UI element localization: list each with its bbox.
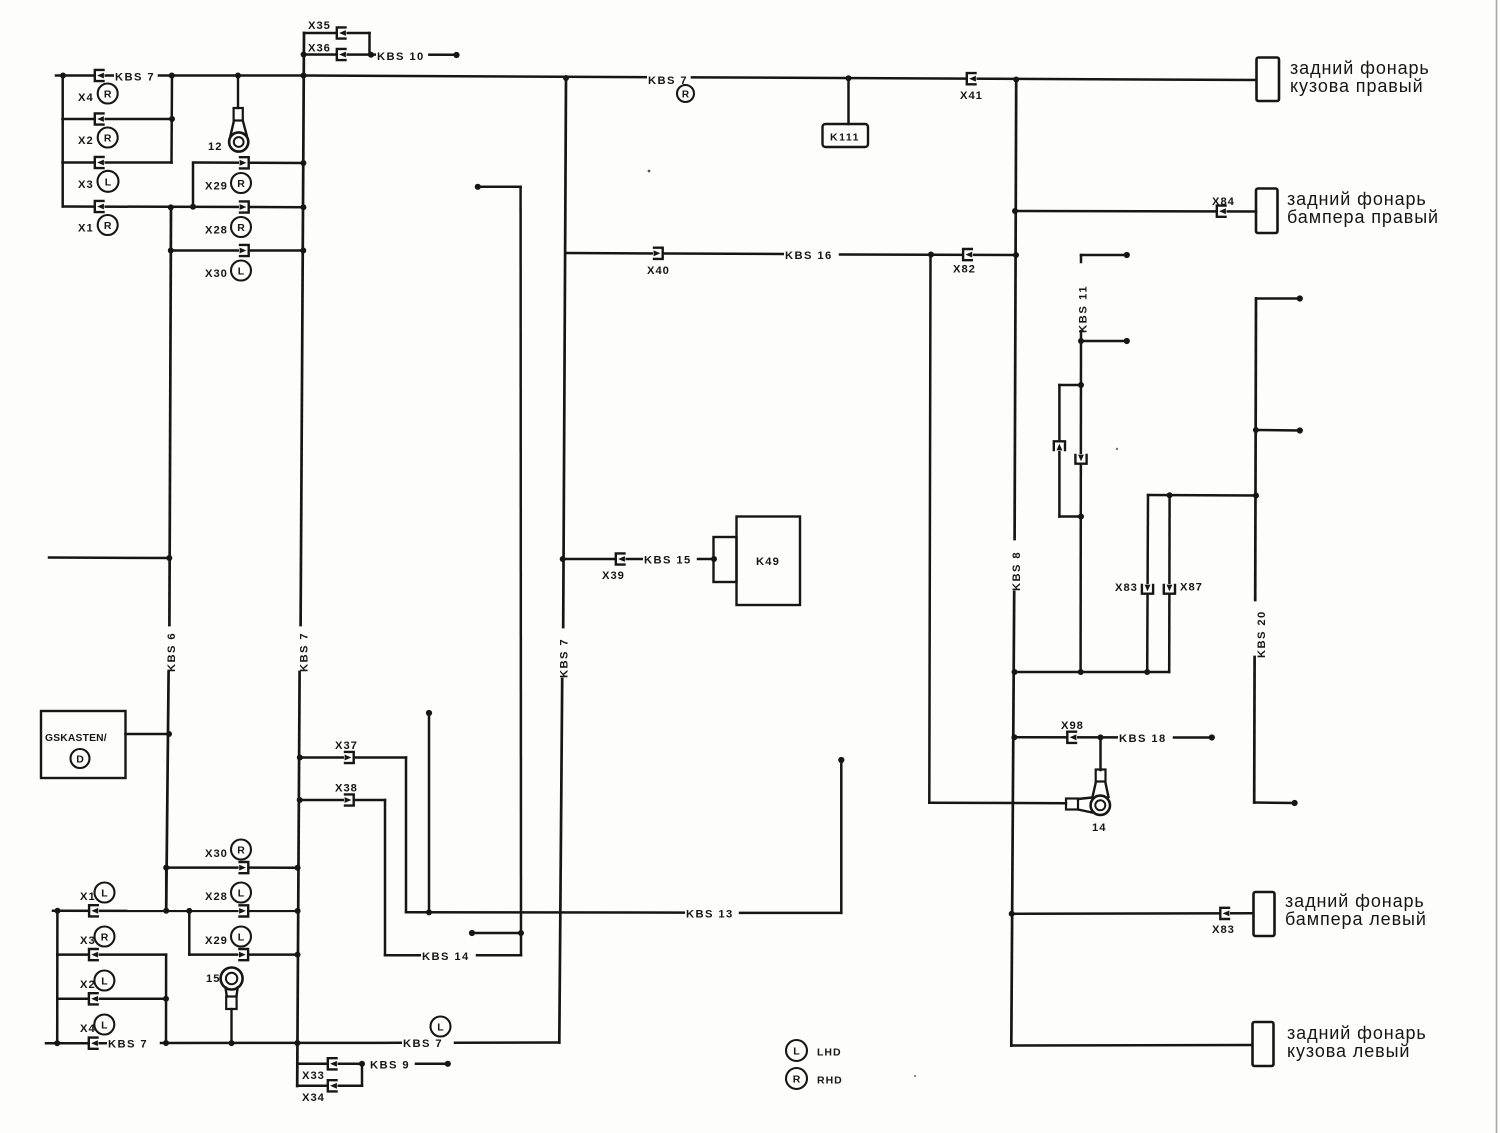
connector X4 — [95, 70, 105, 81]
control unit K49 — [714, 517, 801, 606]
junction dot (169,734) — [166, 731, 172, 737]
svg-text:12: 12 — [208, 141, 222, 153]
svg-text:KBS 14: KBS 14 — [422, 951, 470, 963]
svg-text:KBS 7: KBS 7 — [559, 638, 571, 678]
junction dot (303.4,207.2) — [300, 204, 306, 210]
junction dot (521,933) — [518, 930, 524, 936]
connector X83 bottom — [1220, 908, 1230, 919]
svg-text:L: L — [238, 266, 245, 278]
wire X30 row — [171, 249, 304, 252]
wire X98 row — [1014, 736, 1119, 739]
svg-text:задний фонарь: задний фонарь — [1285, 891, 1425, 911]
connector X29 (R) — [239, 157, 249, 168]
connector X36 — [337, 49, 347, 60]
wire to ring terminal 14 — [929, 802, 1066, 805]
connector X4 (L) — [89, 1038, 99, 1049]
end dot KBS 20 mid stub — [1297, 427, 1303, 433]
wire top link X83/X87 to KBS 20 — [1148, 494, 1256, 497]
svg-text:X36: X36 — [308, 43, 331, 55]
wire bottom link X83/X87 to KBS 8 — [1015, 671, 1170, 674]
junction dot (166.2,867.6) — [163, 865, 169, 871]
svg-text:X98: X98 — [1061, 720, 1084, 732]
svg-text:KBS 20: KBS 20 — [1256, 610, 1268, 658]
connector X28 (R) — [239, 201, 249, 212]
circle D in GSKASTEN box — [71, 749, 90, 768]
svg-text:L: L — [793, 1046, 800, 1058]
svg-text:X2: X2 — [78, 135, 94, 147]
junction dot (169.3,558) — [166, 555, 172, 561]
wire loop left leg — [1058, 385, 1061, 517]
wire stub left at y558 — [49, 556, 169, 559]
svg-text:X83: X83 — [1115, 582, 1138, 594]
lamp задний фонарь бампера левый — [1254, 892, 1275, 936]
wire X1 / X28 row — [63, 205, 304, 208]
junction dot (172,119) — [169, 116, 175, 122]
wire KBS 7 top run to right lamp — [304, 76, 1257, 81]
wire bus KBS 8 upper part — [1015, 80, 1017, 540]
label KBS 13 — [685, 908, 737, 919]
svg-text:X4: X4 — [78, 92, 94, 104]
wire KBS 13 left part — [406, 911, 684, 914]
end dot KBS 20 top stub — [1297, 295, 1303, 301]
end dot KBS 11 top stub — [1124, 252, 1130, 258]
junction dot (1147.2,672) — [1144, 669, 1150, 675]
junction dot (1081,341) — [1078, 338, 1084, 344]
junction dot (1014.5,672) — [1012, 669, 1018, 675]
svg-text:X41: X41 — [960, 90, 983, 102]
wire KBS 11 vertical above label — [1080, 255, 1083, 262]
lamp задний фонарь кузова левый — [1253, 1022, 1274, 1066]
wire bus KBS 6 upper part — [169, 208, 171, 626]
wire bus KBS 7 mid (x562) upper part — [563, 78, 566, 627]
svg-text:LHD: LHD — [817, 1047, 842, 1059]
junction dot (297.5,954.6) — [295, 952, 301, 958]
label KBS 14 — [421, 951, 473, 962]
svg-text:R: R — [101, 932, 109, 944]
wire X34 row — [297, 1085, 362, 1088]
junction dot (371,54.7) — [368, 52, 374, 58]
svg-text:L: L — [238, 888, 245, 900]
end dot KBS 20 bottom stub — [1292, 800, 1298, 806]
wire KBS 16 left part — [566, 253, 784, 254]
wire X38 row — [299, 799, 385, 802]
svg-text:KBS 15: KBS 15 — [644, 555, 692, 567]
connector X82 — [963, 249, 973, 260]
circle R of X2 — [98, 128, 118, 148]
circle R of X1 — [98, 215, 118, 235]
wire drop from node to KBS 13 — [428, 713, 431, 912]
circle R of X29 — [231, 173, 251, 193]
wire main bus KBS 7 (x303) upper part — [301, 33, 304, 625]
svg-text:X38: X38 — [335, 783, 358, 795]
svg-text:X87: X87 — [1180, 582, 1203, 594]
wire long drop x520 to KBS 14 — [519, 187, 522, 956]
relay K111 — [823, 124, 869, 147]
svg-text:R: R — [104, 220, 112, 232]
end dot KBS 10 — [453, 52, 459, 58]
svg-text:KBS 8: KBS 8 — [1011, 551, 1023, 591]
svg-text:KBS 6: KBS 6 — [166, 632, 178, 672]
wire bus KBS 8 lower part — [1011, 592, 1014, 1046]
wire X4 row / KBS 7 feed — [56, 74, 304, 77]
wire to rear bumper lamp left — [1012, 912, 1253, 915]
connector X30 (L) — [239, 245, 249, 256]
junction dot (231.5,1043.1) — [229, 1040, 235, 1046]
connector X35 — [337, 27, 347, 38]
svg-text:X35: X35 — [308, 20, 331, 32]
wire X3R row — [57, 953, 166, 956]
wire bottom KBS 7 row middle — [161, 1042, 401, 1045]
connector X2 (L) — [89, 993, 99, 1004]
wire drop x929 from KBS 16 — [929, 255, 930, 803]
junction dot (1100.5,737.4) — [1098, 734, 1104, 740]
wire to rear bumper lamp right — [1015, 210, 1256, 213]
junction dot (1011.7,913.8) — [1009, 911, 1015, 917]
connector X40 — [653, 248, 663, 259]
junction dot (57.5,910.8) — [55, 908, 61, 914]
label KBS 16 — [784, 250, 836, 261]
circle L legend — [786, 1040, 807, 1061]
wire KBS 11 top stub — [1081, 254, 1127, 257]
svg-text:X28: X28 — [205, 891, 228, 903]
svg-text:R: R — [237, 178, 245, 190]
circle L of X3 — [98, 171, 119, 192]
svg-text:кузова левый: кузова левый — [1287, 1041, 1410, 1061]
fuse box GSKASTEN/D — [41, 711, 126, 778]
label KBS 7 on top run — [647, 75, 691, 86]
junction dot (1081,385) — [1078, 382, 1084, 388]
wire vertical link X29 to X28 row — [192, 163, 195, 207]
junction dot (303.6,54.5) — [301, 52, 307, 58]
svg-text:R: R — [793, 1074, 801, 1086]
circle L of X29 bottom — [231, 927, 251, 947]
connector X1 — [95, 201, 105, 212]
junction dot (562.7,559) — [560, 556, 566, 562]
circle L of X1 bottom — [95, 883, 115, 903]
junction dot (1256,495.5) — [1253, 493, 1259, 499]
svg-text:X33: X33 — [302, 1070, 325, 1082]
junction dot (63,75.5) — [60, 73, 66, 79]
circle R legend — [786, 1068, 807, 1089]
junction dot (1016.2,79.5) — [1013, 77, 1019, 83]
junction dot (193,206.8) — [190, 204, 196, 210]
svg-text:X1: X1 — [80, 891, 96, 903]
circle R of X28 — [231, 217, 251, 237]
svg-text:X40: X40 — [647, 265, 670, 277]
label KBS 7 top left — [114, 71, 158, 82]
svg-text:R: R — [104, 133, 112, 145]
junction dot (297.4,1043) — [294, 1040, 300, 1046]
svg-text:X37: X37 — [335, 740, 358, 752]
svg-text:L: L — [238, 932, 245, 944]
svg-text:X1: X1 — [78, 223, 94, 235]
circle L of X2 bottom — [94, 971, 114, 991]
wire KBS 20 top stub — [1256, 297, 1300, 300]
end dot above KBS 13 drop — [426, 710, 432, 716]
wire GSKASTEN to KBS 6 bus — [126, 733, 170, 736]
connector X2 — [95, 113, 105, 124]
svg-text:L: L — [437, 1022, 444, 1034]
wire KBS 9 line — [416, 1063, 448, 1066]
wire vertical link rows X4-X3 — [170, 76, 173, 163]
svg-text:R: R — [682, 90, 690, 101]
label KBS 18 — [1118, 733, 1170, 744]
connector X3 — [95, 157, 105, 168]
svg-text:KBS 11: KBS 11 — [1078, 285, 1090, 333]
junction dot (848.5,78.3) — [846, 75, 852, 81]
wire KBS 14 left part — [385, 954, 420, 957]
ring terminal 14 — [1066, 770, 1110, 816]
junction dot (1255.9,430) — [1253, 427, 1259, 433]
label KBS 10 — [376, 51, 428, 62]
junction dot (171.8,75.5) — [169, 73, 175, 79]
junction dot (170.8,207.4) — [168, 204, 174, 210]
junction dot (1016,255) — [1013, 252, 1019, 258]
connector X37 — [344, 752, 354, 763]
wire KBS 11 vertical lower — [1079, 331, 1082, 672]
wire KBS 18 stub — [1174, 736, 1212, 739]
circle R legend under KBS 7 label — [677, 85, 694, 102]
circle L of X4 bottom — [94, 1015, 114, 1035]
junction dot (297.6,910.9) — [295, 908, 301, 914]
wire KBS 16 right part — [840, 253, 1016, 256]
wire KBS 13 right part — [740, 912, 841, 915]
ring terminal 12 — [229, 76, 248, 152]
lamp задний фонарь кузова правый — [1257, 58, 1280, 102]
connector X41 — [967, 73, 977, 84]
wire main bus KBS 7 (x303) lower part — [297, 672, 299, 1086]
page edge shadow — [1496, 0, 1498, 1133]
svg-text:KBS 13: KBS 13 — [686, 909, 734, 921]
svg-text:X3: X3 — [80, 935, 96, 947]
wire left bus bottom group — [56, 911, 59, 1043]
connector X34 — [328, 1080, 338, 1091]
svg-text:R: R — [104, 89, 112, 101]
connector X38 — [344, 794, 354, 805]
wire bus KBS 20 upper part — [1254, 299, 1258, 601]
svg-text:X3: X3 — [78, 179, 94, 191]
junction dot (1081,516.5) — [1078, 514, 1084, 520]
svg-text:X29: X29 — [205, 181, 228, 193]
svg-text:X83: X83 — [1212, 924, 1235, 936]
connector X39 — [616, 553, 626, 564]
svg-text:K111: K111 — [830, 132, 860, 144]
connector X83 — [1142, 584, 1153, 594]
svg-text:KBS 18: KBS 18 — [1119, 733, 1167, 745]
wire X35 row — [304, 32, 370, 35]
junction dot (1080.7,672) — [1078, 669, 1084, 675]
circle R of X4 — [98, 84, 118, 104]
svg-text:KBS 9: KBS 9 — [370, 1060, 410, 1072]
svg-text:бампера правый: бампера правый — [1287, 207, 1439, 227]
junction dot (189.3,910.9) — [186, 908, 192, 914]
junction dot (170.8,250.5) — [168, 248, 174, 254]
connector X98 — [1067, 732, 1077, 743]
wire X38 drop to KBS 14 — [384, 800, 387, 955]
connector X3 (R) — [89, 949, 99, 960]
svg-text:KBS 7: KBS 7 — [115, 72, 155, 84]
junction dot (57.2,1043.2) — [54, 1040, 60, 1046]
junction dot (297.6,867.7) — [295, 865, 301, 871]
wire bus KBS 7 mid lower part — [559, 679, 562, 1043]
wire X87 leg — [1168, 495, 1171, 672]
wire KBS 20 mid stub — [1256, 429, 1300, 432]
wire X2L row — [57, 998, 166, 1001]
circle R of X3 bottom — [95, 927, 115, 947]
end dot KBS 9 — [445, 1061, 451, 1067]
end dot KBS 18 — [1209, 734, 1215, 740]
wire X29L row — [189, 953, 297, 956]
end dot at x478 y187 — [475, 184, 481, 190]
junction dot (429,912.4) — [426, 909, 432, 915]
scan specks — [648, 170, 651, 173]
junction dot (303.5,75.5) — [301, 73, 307, 79]
wire loop bottom horizontal — [1059, 515, 1081, 518]
svg-text:X29: X29 — [205, 935, 228, 947]
wire KBS 13 rise to end dot — [840, 760, 843, 913]
wire X35-X36 link bar — [368, 33, 371, 55]
junction dot (1015,211) — [1012, 208, 1018, 214]
circle L above bottom KBS 7 — [431, 1017, 451, 1037]
wire vertical link X3R to KBS7 row — [165, 955, 168, 1043]
wire KBS 11 second stub — [1081, 340, 1127, 343]
wire elbow top of x520 drop — [478, 186, 521, 189]
wire X33-X34 link bar — [361, 1064, 364, 1086]
svg-text:D: D — [76, 754, 84, 766]
junction dot (362,1063.8) — [359, 1061, 365, 1067]
wire X33 row — [297, 1063, 362, 1066]
wire KBS 20 bottom stub — [1254, 801, 1294, 804]
connector on loop left leg — [1054, 441, 1065, 451]
wire bus KBS 6 lower part — [166, 672, 168, 911]
junction dot (1169.6,495.3) — [1167, 492, 1173, 498]
wire tap to K111 — [847, 78, 850, 124]
connector X87 — [1164, 584, 1175, 594]
svg-text:L: L — [105, 176, 112, 188]
junction dot (566,78) — [563, 75, 569, 81]
svg-text:KBS 7: KBS 7 — [299, 632, 311, 672]
wire vertical link X28L to X29L row — [188, 911, 191, 955]
connector X1 (L) — [89, 905, 99, 916]
end dot KBS 13 — [838, 757, 844, 763]
svg-text:15: 15 — [206, 973, 220, 985]
svg-text:X84: X84 — [1212, 196, 1235, 208]
svg-text:задний фонарь: задний фонарь — [1290, 58, 1430, 78]
junction dot (238,75.5) — [235, 73, 241, 79]
junction dot (166,998.8) — [163, 996, 169, 1002]
wire X37 row — [300, 756, 407, 759]
label KBS 7 bottom left — [107, 1038, 151, 1049]
svg-text:L: L — [101, 1020, 108, 1032]
circle L of X30 — [231, 261, 251, 281]
svg-text:KBS 7: KBS 7 — [403, 1038, 443, 1050]
connector X84 — [1217, 206, 1227, 217]
wire stub into x520 drop — [472, 932, 521, 935]
svg-text:X2: X2 — [80, 979, 96, 991]
junction dot (166,1043) — [163, 1040, 169, 1046]
wire KBS6 tail X30R to X28L row — [165, 868, 168, 911]
wire X2 row — [63, 118, 173, 121]
svg-text:KBS 10: KBS 10 — [377, 51, 425, 63]
junction dot (1014.4,737.3) — [1011, 734, 1017, 740]
circle L of X28 bottom — [231, 883, 251, 903]
junction dot (166.2,910.8) — [163, 908, 169, 914]
svg-text:задний фонарь: задний фонарь — [1287, 189, 1427, 209]
svg-text:X39: X39 — [602, 570, 625, 582]
svg-text:L: L — [101, 976, 108, 988]
junction dot (299.7,800) — [297, 797, 303, 803]
wire KBS 14 right part — [477, 954, 521, 957]
svg-text:RHD: RHD — [817, 1075, 843, 1087]
wire X1L / X28L row — [53, 910, 298, 913]
wire bus KBS 20 lower part — [1253, 657, 1256, 803]
wire X36 row / KBS 10 — [303, 53, 456, 56]
svg-text:K49: K49 — [756, 556, 780, 568]
svg-text:R: R — [237, 222, 245, 234]
svg-text:KBS 16: KBS 16 — [785, 250, 833, 262]
svg-text:14: 14 — [1092, 822, 1106, 834]
svg-text:задний фонарь: задний фонарь — [1287, 1023, 1427, 1043]
label KBS 7 bottom middle — [402, 1038, 446, 1049]
wire KBS 15 right part — [698, 558, 714, 561]
ring terminal 15 — [221, 968, 243, 1044]
wire X30R row — [166, 866, 297, 869]
svg-text:X34: X34 — [302, 1092, 325, 1104]
wire drop to ring terminal 14 — [1099, 737, 1102, 770]
wire bottom KBS 7 row right — [455, 1041, 559, 1044]
svg-text:KBS 7: KBS 7 — [108, 1039, 148, 1051]
end dot stub y933 — [469, 930, 475, 936]
lamp задний фонарь бампера правый — [1256, 189, 1278, 234]
wire bottom KBS 7 row left end — [46, 1042, 107, 1045]
svg-text:R: R — [237, 845, 245, 857]
circle R of X30 bottom — [231, 840, 251, 860]
label KBS 15 — [643, 554, 695, 565]
wire to rear body lamp left — [1011, 1044, 1252, 1047]
svg-text:кузова правый: кузова правый — [1290, 76, 1424, 96]
wire loop top horizontal — [1059, 384, 1081, 387]
connector X28 (L) — [239, 905, 249, 916]
junction dot (303.4,163) — [300, 160, 306, 166]
wire X29 row — [195, 161, 304, 164]
wire KBS 15 left part — [563, 558, 646, 561]
wire X3 row — [63, 161, 172, 164]
junction dot (303.3,250.5) — [300, 248, 306, 254]
end dot KBS 11 second stub — [1124, 338, 1130, 344]
svg-text:бампера левый: бампера левый — [1285, 909, 1427, 929]
connector X29 (L) — [238, 949, 248, 960]
junction dot (299.8,757.5) — [297, 755, 303, 761]
label KBS 9 — [369, 1059, 413, 1070]
svg-text:L: L — [101, 888, 108, 900]
connector on KBS 11 leg — [1075, 454, 1086, 464]
junction dot (931,254.5) — [928, 252, 934, 258]
junction dot (714,559) — [711, 556, 717, 562]
svg-text:X82: X82 — [953, 264, 976, 276]
wire X37 drop to KBS 13 — [405, 758, 408, 913]
wire X83 leg — [1146, 495, 1149, 672]
svg-text:X28: X28 — [205, 225, 228, 237]
connector X33 — [328, 1058, 338, 1069]
connector X30 (R) — [239, 862, 249, 873]
svg-text:X30: X30 — [205, 268, 228, 280]
svg-text:X30: X30 — [205, 848, 228, 860]
wire left bus top group — [61, 76, 64, 207]
svg-text:GSKASTEN/: GSKASTEN/ — [45, 733, 107, 744]
